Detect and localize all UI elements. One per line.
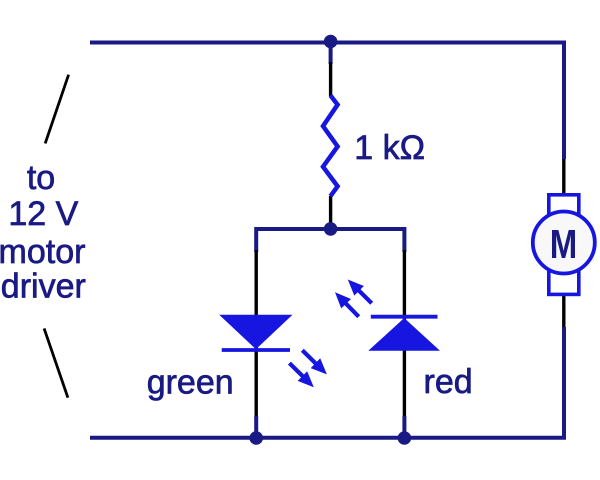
wire LED sub-circuit top rail with corner stubs	[256, 229, 404, 252]
connection break slash upper	[45, 75, 68, 144]
connection break slash lower	[44, 328, 68, 397]
LED D1 green light arrow lower	[289, 363, 304, 377]
wire right side below motor and bottom rail	[90, 327, 564, 438]
node middle junction	[324, 222, 338, 236]
wire red LED branch black segment	[403, 250, 406, 417]
svg-text:driver: driver	[1, 268, 86, 306]
wire green LED branch blue stub to bottom node	[254, 416, 258, 437]
wire motor top black lead	[562, 159, 565, 196]
LED D2 red light arrow left	[345, 302, 359, 316]
node top junction	[324, 35, 338, 49]
wire resistor top black lead	[329, 62, 332, 96]
motor M1 bottom brush rectangle	[549, 268, 579, 294]
LED D2 red light arrow right	[358, 289, 372, 303]
motor M1 letter M	[552, 230, 575, 258]
LED D1 green triangle	[219, 315, 292, 350]
resistor R1 zigzag	[323, 95, 338, 196]
svg-text:to: to	[27, 159, 55, 197]
motor M1 top brush rectangle	[549, 195, 579, 221]
node bottom right junction	[398, 431, 412, 445]
LED D1 green cathode bar	[222, 348, 290, 352]
svg-text:green: green	[147, 363, 234, 401]
motor M1 body circle	[533, 212, 595, 274]
wire resistor bottom black lead	[329, 196, 332, 226]
wire red LED branch blue stub to bottom node	[402, 416, 406, 437]
wire green LED branch black segment	[255, 250, 258, 417]
svg-text:motor: motor	[0, 233, 85, 271]
LED D2 red cathode bar	[371, 315, 438, 319]
svg-text:1 kΩ: 1 kΩ	[354, 129, 425, 167]
svg-text:12 V: 12 V	[8, 195, 78, 233]
wire resistor branch blue stub below top node	[329, 44, 333, 64]
LED D1 green light arrow upper	[302, 350, 317, 364]
wire top rail and right side down to motor	[90, 43, 564, 160]
node bottom left junction	[249, 431, 263, 445]
label to 12 V motor driver	[0, 159, 86, 305]
LED D2 red triangle	[368, 318, 440, 351]
svg-text:red: red	[424, 363, 473, 401]
wire motor bottom black lead	[562, 293, 565, 327]
